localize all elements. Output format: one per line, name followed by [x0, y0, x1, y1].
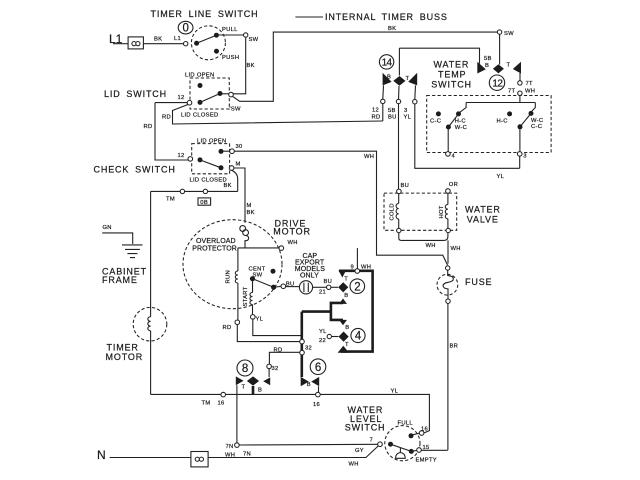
- svg-text:7N: 7N: [243, 451, 251, 457]
- svg-text:14: 14: [382, 58, 393, 69]
- svg-text:L1: L1: [174, 36, 181, 42]
- svg-text:BU: BU: [388, 115, 397, 121]
- svg-text:COLD: COLD: [390, 203, 396, 220]
- svg-text:BK: BK: [247, 63, 255, 69]
- svg-text:3: 3: [404, 108, 408, 114]
- svg-text:T: T: [344, 277, 348, 283]
- svg-text:TIMER: TIMER: [107, 342, 139, 352]
- svg-text:T: T: [507, 63, 511, 69]
- svg-text:WH: WH: [225, 452, 235, 458]
- svg-text:B: B: [345, 325, 349, 331]
- svg-text:FULL: FULL: [398, 421, 414, 427]
- svg-text:MOTOR: MOTOR: [106, 352, 144, 362]
- svg-text:INTERNAL TIMER BUSS: INTERNAL TIMER BUSS: [325, 12, 448, 22]
- svg-text:SW: SW: [504, 31, 514, 37]
- svg-text:OVERLOAD: OVERLOAD: [196, 238, 236, 245]
- svg-text:B: B: [485, 63, 489, 69]
- svg-text:B: B: [258, 387, 262, 393]
- svg-text:4: 4: [452, 154, 456, 160]
- svg-text:LID SWITCH: LID SWITCH: [104, 89, 167, 99]
- svg-text:YL: YL: [497, 174, 505, 180]
- svg-text:ONLY: ONLY: [300, 273, 319, 280]
- svg-text:EMPTY: EMPTY: [416, 458, 437, 464]
- svg-text:32: 32: [272, 366, 279, 372]
- svg-text:SW: SW: [249, 37, 259, 43]
- svg-text:START: START: [243, 286, 249, 306]
- svg-text:TM: TM: [202, 401, 211, 407]
- svg-text:OR: OR: [449, 182, 458, 188]
- svg-text:12: 12: [178, 95, 185, 101]
- svg-text:0B: 0B: [200, 200, 208, 206]
- svg-text:WH: WH: [364, 154, 374, 160]
- svg-text:12: 12: [372, 108, 379, 114]
- svg-text:WH: WH: [451, 246, 461, 252]
- svg-text:8: 8: [242, 363, 248, 375]
- svg-text:BK: BK: [388, 26, 396, 32]
- svg-text:LID OPEN: LID OPEN: [185, 73, 214, 79]
- svg-text:TEMP: TEMP: [438, 69, 466, 79]
- svg-text:W-C: W-C: [531, 118, 543, 124]
- svg-text:HOT: HOT: [439, 205, 445, 218]
- svg-text:PROTECTOR: PROTECTOR: [192, 246, 237, 253]
- svg-text:FUSE: FUSE: [465, 277, 492, 287]
- svg-text:GN: GN: [103, 225, 112, 231]
- svg-text:C-C: C-C: [430, 119, 441, 125]
- svg-text:B: B: [344, 293, 348, 299]
- svg-text:TM: TM: [166, 197, 175, 203]
- svg-text:T: T: [242, 385, 246, 391]
- svg-text:WATER: WATER: [465, 204, 501, 214]
- svg-text:CHECK SWITCH: CHECK SWITCH: [94, 165, 176, 175]
- svg-text:C-C: C-C: [531, 124, 542, 130]
- svg-text:YL: YL: [404, 115, 412, 121]
- svg-text:VALVE: VALVE: [467, 215, 499, 225]
- svg-text:MOTOR: MOTOR: [273, 227, 311, 237]
- svg-text:T: T: [406, 76, 410, 82]
- svg-text:LID CLOSED: LID CLOSED: [190, 178, 227, 184]
- svg-text:M: M: [247, 203, 252, 209]
- svg-text:′SW: ′SW: [230, 107, 242, 113]
- svg-text:WH: WH: [525, 89, 535, 95]
- svg-text:2: 2: [354, 281, 360, 293]
- svg-text:FRAME: FRAME: [102, 275, 138, 285]
- svg-text:16: 16: [313, 402, 320, 408]
- svg-text:T: T: [345, 342, 349, 348]
- svg-text:YL: YL: [319, 329, 327, 335]
- svg-text:RD: RD: [372, 115, 381, 121]
- svg-text:4: 4: [355, 331, 362, 343]
- svg-text:WH: WH: [426, 243, 436, 249]
- svg-text:7N: 7N: [226, 444, 234, 450]
- svg-text:PUSH: PUSH: [222, 55, 239, 61]
- svg-text:LID CLOSED: LID CLOSED: [181, 113, 218, 119]
- svg-text:YL: YL: [256, 317, 264, 323]
- svg-text:3: 3: [523, 154, 527, 160]
- svg-text:B: B: [307, 382, 311, 388]
- svg-text:6: 6: [315, 362, 321, 374]
- svg-text:5B: 5B: [484, 56, 492, 62]
- svg-text:YL: YL: [391, 389, 399, 395]
- svg-text:LID OPEN: LID OPEN: [197, 139, 226, 145]
- svg-text:12: 12: [492, 78, 503, 89]
- svg-text:RD: RD: [223, 325, 232, 331]
- svg-text:5B: 5B: [388, 108, 396, 114]
- svg-text:SWITCH: SWITCH: [345, 423, 386, 433]
- svg-text:TIMER LINE SWITCH: TIMER LINE SWITCH: [151, 9, 259, 19]
- svg-text:PULL: PULL: [222, 27, 238, 33]
- svg-text:WH: WH: [288, 240, 298, 246]
- svg-text:W-C: W-C: [455, 125, 467, 131]
- svg-text:16: 16: [218, 401, 225, 407]
- svg-text:21: 21: [319, 290, 326, 296]
- svg-text:RD: RD: [144, 124, 153, 130]
- svg-text:30: 30: [236, 144, 243, 150]
- svg-text:BU: BU: [401, 183, 410, 189]
- svg-text:SWITCH: SWITCH: [431, 79, 472, 89]
- svg-text:M: M: [236, 162, 241, 168]
- svg-text:RD: RD: [162, 115, 171, 121]
- svg-text:0: 0: [183, 23, 189, 35]
- svg-text:BR: BR: [450, 344, 459, 350]
- svg-text:7T: 7T: [526, 81, 534, 87]
- svg-text:RUN: RUN: [226, 270, 232, 283]
- svg-text:BK: BK: [247, 210, 255, 216]
- svg-text:N: N: [97, 448, 106, 462]
- svg-text:BK: BK: [154, 37, 162, 43]
- svg-text:H-C: H-C: [455, 119, 466, 125]
- svg-text:H-C: H-C: [497, 119, 508, 125]
- svg-text:32: 32: [305, 346, 312, 352]
- svg-text:B: B: [387, 75, 391, 81]
- svg-text:WH: WH: [349, 462, 359, 468]
- svg-text:GY: GY: [355, 448, 364, 454]
- svg-text:WATER: WATER: [434, 59, 470, 69]
- svg-text:RD: RD: [274, 348, 283, 354]
- svg-text:12: 12: [178, 153, 185, 159]
- svg-text:7T: 7T: [508, 89, 516, 95]
- svg-text:BK: BK: [224, 183, 232, 189]
- svg-text:BU: BU: [324, 279, 333, 285]
- svg-text:7: 7: [370, 438, 374, 444]
- svg-text:22: 22: [319, 338, 326, 344]
